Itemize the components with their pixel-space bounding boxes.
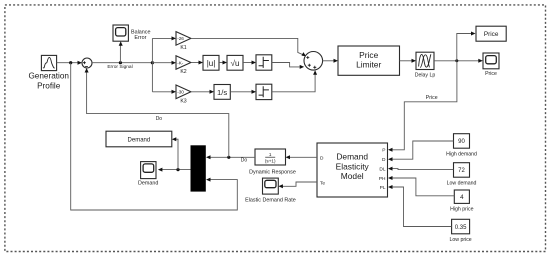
node Do junction: [227, 156, 230, 159]
wire K1 to sum2 top: [191, 38, 306, 56]
svg-text:90: 90: [458, 139, 465, 145]
constant 4 High price: [450, 190, 473, 213]
subsystem Price Limiter: [338, 46, 400, 75]
node price junction: [455, 59, 458, 62]
svg-text:-26: -26: [177, 36, 184, 41]
node error branch junction: [151, 61, 154, 64]
saturation block row3: [256, 84, 272, 99]
wire K3 to integrator: [191, 90, 214, 94]
svg-text:72: 72: [458, 168, 465, 174]
svg-text:Price: Price: [484, 31, 499, 38]
constant 0.35 Low price: [449, 219, 471, 243]
gain K1: [176, 32, 191, 51]
wire model Te output to elastic demand rate scope: [278, 182, 317, 188]
wire Do feedback to sum1: [85, 68, 229, 157]
node demand junction: [176, 168, 179, 171]
svg-text:D: D: [320, 155, 324, 161]
svg-text:K1: K1: [180, 45, 186, 51]
svg-text:Price: Price: [426, 95, 438, 101]
svg-text:Demand: Demand: [138, 181, 158, 187]
svg-text:Do: Do: [241, 157, 248, 163]
transfer block Delay Lp: [415, 52, 436, 78]
svg-text:Price: Price: [359, 50, 378, 60]
saturation block row2: [256, 55, 272, 70]
constant 72 Low demand: [447, 163, 477, 187]
wire branch to K1: [152, 36, 176, 40]
wire delay to junction and price scope: [434, 59, 483, 63]
wire model D output to dynamic response: [286, 155, 318, 159]
wire 72 to DL input: [388, 167, 454, 171]
svg-text:Elastic Demand Rate: Elastic Demand Rate: [245, 198, 296, 204]
svg-text:P: P: [382, 148, 385, 154]
svg-text:Model: Model: [341, 171, 364, 181]
subsystem Demand Elasticity Model: [317, 143, 388, 197]
wire saturation2 to sum2: [272, 63, 304, 69]
scope Balance Error: [113, 25, 150, 41]
svg-text:√u: √u: [231, 59, 240, 68]
svg-text:Demand: Demand: [128, 137, 151, 143]
svg-text:Low demand: Low demand: [447, 180, 477, 186]
gain K2: [176, 56, 191, 75]
wire junction up to goto demand: [172, 137, 178, 169]
svg-text:Delay Lp: Delay Lp: [415, 73, 436, 79]
wire dynamic response output Do to mux: [206, 155, 255, 163]
svg-text:D: D: [382, 157, 386, 163]
svg-text:PH: PH: [379, 176, 386, 182]
wire 90 to D input: [388, 141, 454, 161]
wire sum2 to price limiter: [323, 59, 338, 63]
wire generation output to sum: [57, 61, 82, 65]
wire generation loop to mux bottom: [71, 63, 238, 210]
svg-text:4: 4: [460, 194, 464, 201]
scope Price: [483, 53, 499, 77]
svg-text:K2: K2: [180, 69, 186, 75]
svg-text:Dynamic Response: Dynamic Response: [249, 170, 296, 176]
svg-text:Error: Error: [134, 35, 146, 41]
scope Demand: [138, 162, 158, 187]
constant 90 High demand: [446, 134, 477, 158]
svg-text:Elasticity: Elasticity: [336, 161, 370, 171]
wire branch to K2: [152, 61, 176, 65]
svg-text:Do: Do: [156, 116, 163, 122]
svg-text:1: 1: [269, 152, 272, 157]
node error junction scope: [119, 61, 122, 64]
wire error signal: [92, 63, 152, 70]
transfer block Dynamic Response: [249, 149, 296, 176]
node generation junction: [69, 61, 72, 64]
mux bus bar: [191, 145, 206, 191]
gain K3: [176, 85, 191, 105]
wire to balance error scope: [119, 41, 123, 63]
wire 0.35 to PL input: [388, 185, 452, 227]
scope Elastic Demand Rate: [245, 178, 296, 204]
svg-text:1/s: 1/s: [217, 88, 227, 97]
wire K2 to abs: [191, 61, 203, 65]
svg-text:-30: -30: [177, 90, 184, 95]
goto block Demand: [106, 131, 172, 147]
svg-text:DL: DL: [379, 166, 385, 172]
svg-text:Error Signal: Error Signal: [107, 64, 132, 70]
svg-text:K3: K3: [180, 99, 186, 105]
wire price limiter to delay: [400, 59, 417, 63]
wire saturation3 to sum2 bottom: [272, 70, 317, 92]
wire sqrt to saturation: [243, 61, 256, 65]
integrator block 1/s: [214, 85, 230, 100]
svg-text:|u|: |u|: [207, 59, 216, 68]
goto block Price: [476, 26, 506, 41]
wire abs to sqrt: [219, 61, 227, 65]
svg-text:Limiter: Limiter: [356, 60, 381, 70]
svg-text:Demand: Demand: [336, 152, 368, 162]
svg-text:Price: Price: [485, 71, 497, 77]
svg-text:Low price: Low price: [449, 237, 471, 243]
svg-text:-K-: -K-: [177, 60, 184, 65]
svg-text:0.35: 0.35: [455, 225, 467, 231]
wire 4 to PH input: [388, 176, 454, 196]
sum S1: [82, 58, 92, 68]
sqrt block: [227, 55, 243, 70]
wire junction up to goto price: [457, 32, 476, 61]
svg-text:(s+1): (s+1): [265, 159, 276, 164]
svg-text:High price: High price: [450, 207, 473, 213]
wire branch vertical: [151, 38, 153, 91]
wire price junction down to P input: [388, 61, 457, 152]
svg-text:Profile: Profile: [37, 82, 61, 91]
abs block |u|: [203, 55, 219, 70]
svg-text:PL: PL: [380, 185, 386, 191]
sum S2: [304, 52, 323, 71]
wire integrator to saturation3: [230, 90, 256, 94]
svg-text:High demand: High demand: [446, 151, 477, 157]
source block Generation Profile: [28, 55, 69, 90]
svg-text:Generation: Generation: [28, 72, 69, 81]
wire mux output to demand junction: [158, 168, 191, 172]
svg-text:Te: Te: [320, 180, 325, 186]
wire branch to K3: [152, 90, 176, 94]
